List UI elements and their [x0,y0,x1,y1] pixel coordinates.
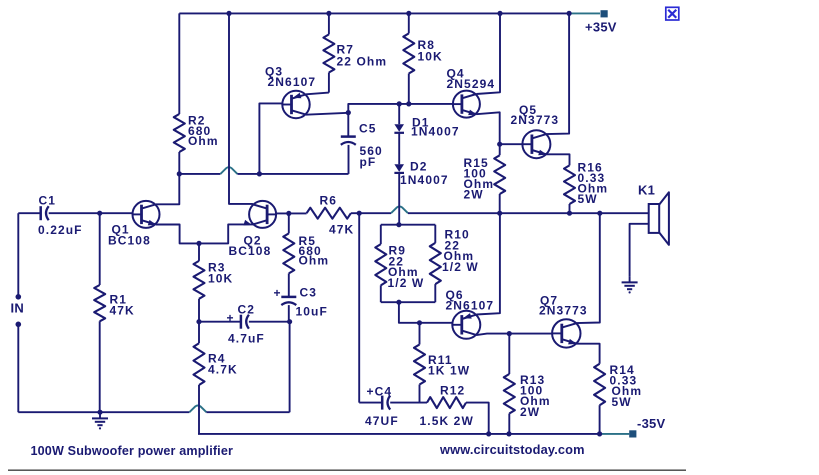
svg-text:BC108: BC108 [108,234,151,248]
junction dot emitters node [196,241,201,246]
junction dot Q5 base node [497,142,502,147]
wire R11 bottom lead [419,385,421,403]
wire speaker ground lead [630,224,649,276]
wire C3 bottom lead [288,305,290,322]
junction dot feedback node (R6 right) [357,211,362,216]
capacitor C3 [281,296,296,299]
wire Q4 collector to top rail [476,13,500,94]
wire Q2 base to R6 [276,212,307,214]
svg-text:2W: 2W [464,188,484,202]
resistor R8 [403,33,414,73]
svg-text:2N3773: 2N3773 [511,113,560,127]
wire R8 bottom lead [408,74,410,104]
svg-text:+35V: +35V [585,20,617,35]
junction dot mid rail x569.5 [567,211,572,216]
wire C2 left lead [199,321,241,323]
wire Q6 collector to Q7 base [476,334,552,336]
wire R11 top lead [419,323,421,345]
svg-text:47UF: 47UF [365,414,399,428]
junction dot mid rail x499.7 [497,211,502,216]
junction dot ground at R1 [97,410,102,415]
transistor Q7 [552,319,580,347]
svg-text:pF: pF [360,155,377,169]
resistor R12 (horizontal) [427,397,466,408]
svg-text:1K 1W: 1K 1W [428,364,470,378]
wire R8 top lead [408,13,410,33]
IN terminal lower dot [15,322,21,328]
transistor Q5 [522,130,550,158]
wire ground line left segment [18,411,189,413]
resistor R10 [430,243,441,284]
svg-text:2N3773: 2N3773 [539,303,588,317]
resistor R9 [375,244,386,285]
-35V terminal square [629,430,636,437]
wire R9 bottom lead [380,285,382,302]
wire Q6 emitter to mid rail [476,213,500,314]
wire Q5 collector to top rail [546,13,569,134]
svg-text:C2: C2 [238,303,256,317]
wire R3 bottom lead [198,299,200,322]
wire C5 top lead [347,113,349,137]
svg-text:5W: 5W [612,395,632,409]
transistor Q3 (PNP) [282,91,309,118]
wire mid rail R6 to hop [351,212,391,214]
svg-text:47K: 47K [329,223,354,237]
wire R1 top lead [99,213,101,285]
transistor Q1 [133,201,160,228]
resistor R14 [594,364,605,406]
svg-text:47K: 47K [110,304,135,318]
svg-text:100W Subwoofer power amplifier: 100W Subwoofer power amplifier [31,444,234,458]
wire input line from IN to C1 [18,212,40,214]
svg-text:2N5294: 2N5294 [447,77,496,91]
wire C2/C3 node down to ground line [289,322,291,413]
wire hop over D2 column (teal) [391,207,408,214]
junction dot bracket bottom [396,300,401,305]
wire C5 bottom lead [348,145,350,174]
wire IN jack upper lead [17,213,19,297]
junction dot C2 left node [196,319,201,324]
ground symbol main [99,412,101,418]
wire Q2 collector column [229,13,253,204]
wire Q1 collector to R2 node [156,174,179,204]
junction dot bracket top [396,222,401,227]
wire R4 top lead [198,322,200,344]
svg-text:2N6107: 2N6107 [268,75,317,89]
junction dot R5 top [286,211,291,216]
resistor R7 [323,34,334,72]
svg-text:1/2 W: 1/2 W [442,260,479,274]
wire R16 bottom lead [569,204,571,213]
wire hop over Q2 collector column (teal) [220,167,237,174]
IN terminal upper dot [15,294,21,300]
wire R1 bottom lead [99,321,101,412]
svg-text:www.circuitstoday.com: www.circuitstoday.com [439,442,585,457]
resistor R11 [414,345,425,385]
svg-text:22 Ohm: 22 Ohm [337,55,388,69]
junction dot bottom rail x599.6 (R14) [597,431,602,436]
wire Q7 emitter to R14 [576,344,599,364]
diode D2 [394,164,404,172]
wire R10 top lead [434,225,436,243]
svg-text:K1: K1 [638,183,655,198]
junction dot at R1 top [97,211,102,216]
wire IN jack lower lead to ground line [17,324,19,412]
wire +35V top rail [179,12,569,14]
svg-text:10uF: 10uF [296,305,328,319]
svg-text:1/2 W: 1/2 W [388,276,425,290]
capacitor C2 [240,315,243,329]
wire D2 bottom lead through hop to R9/R10 bracket [398,173,400,225]
resistor R2 [174,114,185,152]
svg-text:IN: IN [11,301,25,316]
svg-text:5W: 5W [578,192,598,206]
transistor Q2 [249,201,276,228]
junction dot C5 top node [346,110,351,115]
transistor Q6 (PNP) [452,311,480,339]
svg-text:Ohm: Ohm [188,134,219,148]
svg-text:10K: 10K [208,272,233,286]
svg-text:C3: C3 [300,286,318,300]
wire mid rail hop to speaker [408,212,649,214]
svg-text:10K: 10K [418,50,443,64]
svg-text:R6: R6 [320,194,338,208]
svg-text:1.5K 2W: 1.5K 2W [420,414,474,428]
junction dot mid rail x599.8 [597,211,602,216]
wire R2 top lead [178,13,180,114]
wire R13 top lead [508,334,510,374]
resistor R16 [564,165,575,204]
wire R5 to C3 [288,273,290,297]
wire R2 bottom lead [178,152,180,174]
wire C5 node to Q4 base [348,104,453,113]
wire bracket to Q6 base [399,302,452,323]
wire emitter node to Q2 emitter [199,224,253,243]
wire hop over R4 column (teal) [189,406,206,413]
bottom border line [8,469,686,471]
capacitor C5 [341,135,356,138]
wire C2 right lead [249,321,290,323]
junction dot bottom rail x488.7 (R12) [486,431,491,436]
resistor R5 [283,233,294,273]
junction dot top rail x569 (Q5 collector) [567,11,572,16]
svg-text:+C4: +C4 [367,385,393,399]
wire D1 to D2 [398,133,400,165]
resistor R6 (horizontal) [307,208,351,219]
junction dot R8 bottom [406,101,411,106]
wire +35V terminal stub (teal) [569,12,600,14]
capacitor C4 [381,396,384,410]
wire Q3 emitter to R7 [306,93,329,95]
wire R12 right lead to -35V rail [466,403,489,434]
wire feedback column (R6 junction to C4) [358,213,360,402]
wire Q3 base riser [259,103,282,173]
junction dot R11 top [417,320,422,325]
junction dot node A at Q3 base riser [257,171,262,176]
wire -35V terminal stub (teal) [600,433,630,435]
junction dot top rail x229 [226,11,231,16]
wire R9/R10 bottom bracket [381,301,436,303]
wire C4 right lead to R11 node [390,402,427,404]
wire R3 top lead [198,243,200,261]
wire Q7 collector to mid rail [576,213,599,323]
wire node A horizontal left part [179,173,220,175]
wire node A horizontal right part [237,173,348,175]
svg-text:BC108: BC108 [229,244,272,258]
wire R9/R10 top bracket [381,224,436,226]
wire R9 top lead [380,225,382,244]
wire R7 top lead [328,13,330,34]
svg-text:1N4007: 1N4007 [411,124,460,138]
wire Q5 base lead [500,143,523,145]
wire Q4 emitter lead [476,112,499,155]
wire D1 top lead [398,104,400,124]
junction dot node A (R2/Q1 collector) [177,171,182,176]
resistor R3 [194,261,205,299]
wire R4 bottom lead to -35V rail [198,385,200,434]
transistor Q4 [453,91,480,118]
junction dot top rail x408.8 (R8) [406,11,411,16]
wire ground line right segment [206,411,289,413]
svg-text:+: + [274,286,282,300]
wire Q1 emitter lead [156,225,199,244]
svg-text:2W: 2W [520,405,540,419]
wire R15 bottom lead [499,194,501,213]
svg-text:1N4007: 1N4007 [400,173,449,187]
junction dot D1 top [397,101,402,106]
svg-text:R12: R12 [440,384,465,398]
wire C4 left lead [359,402,382,404]
+35V terminal square [601,10,608,17]
ground symbol at speaker [629,276,631,282]
wire Q3 collector to C5 node [306,113,348,115]
svg-text:-35V: -35V [637,416,666,431]
svg-text:C5: C5 [359,122,377,136]
svg-text:4.7K: 4.7K [208,363,238,377]
svg-text:C1: C1 [39,194,57,208]
svg-text:+: + [227,311,235,325]
speaker K1 [649,204,660,233]
wire C1 to Q1 base [49,212,133,214]
svg-text:Ohm: Ohm [299,254,330,268]
resistor R1 [94,285,105,321]
junction dot R13 top [507,331,512,336]
junction dot bottom rail x509 (R13) [506,431,511,436]
diode D1 [394,124,404,132]
resistor R4 [194,343,205,385]
junction dot C2/C3 node [287,319,292,324]
wire R10 bottom lead [434,284,436,302]
wire R5 top lead [288,213,290,233]
wire -35V bottom rail [198,433,600,435]
resistor R13 [504,374,515,414]
svg-text:D2: D2 [410,160,428,174]
junction dot top rail x500 (Q4 collector) [497,11,502,16]
wire Q5 emitter to R16 [546,154,569,165]
capacitor C1 [39,206,42,220]
resistor R15 [494,155,505,194]
svg-text:0.22uF: 0.22uF [38,223,83,237]
wire R13 bottom lead [508,414,510,434]
wire R7 bottom lead [328,73,330,93]
junction dot top rail x328.9 (R7) [326,11,331,16]
svg-text:2N6107: 2N6107 [446,298,495,312]
svg-text:4.7uF: 4.7uF [228,331,265,345]
close button (X) [666,7,679,20]
wire R14 bottom lead [599,405,601,434]
